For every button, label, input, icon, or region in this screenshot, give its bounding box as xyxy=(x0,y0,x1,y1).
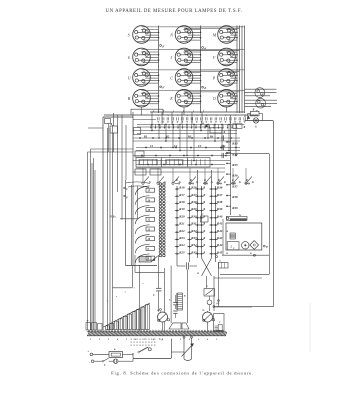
crossover X wires xyxy=(202,258,212,276)
svg-text:G: G xyxy=(158,309,160,312)
svg-text:R19: R19 xyxy=(179,207,185,211)
svg-text:R18: R18 xyxy=(179,200,185,204)
inner region left vertical xyxy=(132,112,134,266)
staircase resistor bank xyxy=(104,303,151,330)
meter M1 circle xyxy=(158,309,170,331)
top row terminal numbers xyxy=(158,115,236,117)
bus wire h2 y=119.5 xyxy=(133,119,156,121)
plug/fuse box xyxy=(109,348,123,357)
left lower bundle verticals xyxy=(88,149,96,330)
svg-text:C: C xyxy=(170,76,173,81)
tube socket C (col 2 row 3) xyxy=(170,69,201,87)
svg-text:R: R xyxy=(203,237,205,240)
svg-text:C: C xyxy=(153,294,155,297)
component C12 box in matrix xyxy=(201,213,209,222)
wire lower with switch and lamp xyxy=(89,358,114,364)
svg-text:R: R xyxy=(203,208,205,211)
tube socket O (col 3 row 4) xyxy=(213,89,238,107)
galvanometer G circle-X xyxy=(253,118,258,129)
inner right boundary vertical xyxy=(268,154,270,275)
wire main line to right xyxy=(245,120,274,122)
resistor R13b box xyxy=(233,124,246,129)
node labels C and g xyxy=(124,187,129,199)
resistor R20 box with loop xyxy=(248,108,263,120)
right contact column xyxy=(226,115,238,215)
small top box xyxy=(131,109,163,115)
wire row 4 long horizontals xyxy=(142,91,245,92)
wire to plug upper xyxy=(88,351,110,356)
shunt box with hatching xyxy=(227,230,236,239)
wire plug to transformer xyxy=(123,354,134,356)
right boundary vertical wire xyxy=(273,121,275,307)
svg-text:R: R xyxy=(203,251,205,254)
fuse G horizontal component xyxy=(226,214,247,221)
wire row 1 long horizontals xyxy=(142,27,245,28)
brush trapezoid right xyxy=(182,323,189,329)
svg-text:r: r xyxy=(116,295,117,298)
terminal strip numbers xyxy=(90,339,218,341)
svg-text:6: 6 xyxy=(128,55,130,60)
node F lower xyxy=(160,86,166,90)
node F upper xyxy=(160,44,166,48)
svg-text:4: 4 xyxy=(187,115,188,117)
bus comb ticks xyxy=(151,125,238,129)
panel outer left vertical xyxy=(102,117,104,330)
svg-text:R34: R34 xyxy=(232,152,238,156)
terminal strip hatched bar xyxy=(87,332,227,336)
svg-text:φ: φ xyxy=(266,245,268,249)
left verticals x117-126 xyxy=(117,115,126,220)
tiny labels along bus lines xyxy=(144,135,226,148)
svg-text:R29: R29 xyxy=(191,207,197,211)
svg-text:8: 8 xyxy=(225,115,226,117)
svg-text:R31: R31 xyxy=(191,222,197,226)
tube socket J (col 2 row 2) xyxy=(170,48,201,66)
bus wire h12 y=164.5 xyxy=(136,164,225,166)
vertical wire from R9 xyxy=(113,113,115,152)
svg-text:R32: R32 xyxy=(191,229,197,233)
svg-text:R39: R39 xyxy=(232,206,238,210)
svg-text:R20: R20 xyxy=(179,214,185,218)
pilot lamp xyxy=(113,359,133,364)
bus wire h10 y=155.5 xyxy=(133,155,230,157)
svg-text:J: J xyxy=(170,55,172,60)
svg-text:C: C xyxy=(202,213,204,216)
right block enclosure box xyxy=(226,223,262,250)
svg-text:A: A xyxy=(243,115,246,118)
tube socket E (col 2 row 4) xyxy=(169,89,201,107)
svg-text:R36: R36 xyxy=(217,186,223,190)
svg-text:R26: R26 xyxy=(191,186,197,190)
hatched resistor between meters xyxy=(178,293,183,310)
bus wire h5 y=130.5 xyxy=(133,130,237,132)
comb wafer band xyxy=(136,158,210,168)
component C small box right of matrix xyxy=(219,260,229,269)
U-shaped wire box below strip xyxy=(133,340,172,359)
svg-text:7: 7 xyxy=(216,115,217,117)
svg-text:R37: R37 xyxy=(232,184,238,188)
tube socket B (col 1 row 4) xyxy=(128,89,159,107)
component box left b xyxy=(135,151,144,157)
svg-text:R: R xyxy=(204,179,206,182)
tube socket 6 (col 1 row 2) xyxy=(128,48,159,66)
svg-text:R: R xyxy=(203,223,205,226)
panel outer top edge xyxy=(103,116,133,118)
svg-text:r: r xyxy=(125,291,126,294)
svg-text:R24: R24 xyxy=(179,243,185,247)
left bundle top connectors xyxy=(88,128,134,152)
svg-text:R42: R42 xyxy=(217,229,223,233)
capacitor C5 small xyxy=(173,295,177,309)
svg-text:R: R xyxy=(203,244,205,247)
capacitor C6 small xyxy=(169,299,178,319)
bus wire h11 y=160.5 xyxy=(133,160,230,162)
right boundary bottom horizontal xyxy=(214,306,274,308)
rotary switch arcs and resistor steps xyxy=(135,186,154,263)
wire verticals between meters xyxy=(171,266,187,324)
svg-text:R: R xyxy=(224,131,226,134)
svg-text:R: R xyxy=(253,108,255,111)
svg-text:S: S xyxy=(128,33,130,38)
wire above switch row xyxy=(133,171,225,173)
svg-text:R: R xyxy=(203,187,205,190)
svg-text:C: C xyxy=(126,188,128,191)
svg-text:P: P xyxy=(212,76,216,81)
rotary switch enclosure inner vertical xyxy=(131,185,133,266)
terminal strip stud circles xyxy=(88,330,223,332)
phones diamond symbol xyxy=(250,241,259,250)
svg-text:R23: R23 xyxy=(179,236,185,240)
box Lp xyxy=(227,242,239,250)
selector switch row xyxy=(142,168,254,184)
meter circle with center dot xyxy=(242,242,249,249)
panel inner verticals bundle xyxy=(108,125,113,330)
rotary switch entry curves xyxy=(126,182,150,188)
bus wire h8 y=147.5 xyxy=(136,147,240,149)
component box left a xyxy=(134,128,141,135)
svg-text:A: A xyxy=(196,272,199,275)
svg-text:R: R xyxy=(203,194,205,197)
svg-text:R27: R27 xyxy=(191,193,197,197)
meter M2 circle xyxy=(203,309,215,331)
capacitor symbols at line ends xyxy=(222,135,224,158)
bus wire h13 y=168.0 xyxy=(136,167,225,169)
svg-text:R28: R28 xyxy=(191,200,197,204)
svg-text:R38: R38 xyxy=(217,200,223,204)
svg-text:Fl.Ex: Fl.Ex xyxy=(110,216,117,219)
junction on right boundary wire xyxy=(213,306,215,308)
svg-text:O: O xyxy=(213,96,216,101)
svg-text:5: 5 xyxy=(196,115,197,117)
svg-text:R43: R43 xyxy=(217,236,223,240)
svg-text:R30: R30 xyxy=(191,214,197,218)
capacitor C4 mid-left xyxy=(153,255,161,312)
scattered junction dots on bus lines xyxy=(139,137,236,165)
svg-text:M: M xyxy=(212,33,217,38)
svg-text:d: d xyxy=(204,46,206,50)
wire row 2 long horizontals xyxy=(142,49,245,50)
tube socket S (col 1 row 1) xyxy=(128,26,159,44)
bus wire h9 y=150.5 xyxy=(136,150,240,152)
svg-text:A: A xyxy=(201,123,204,126)
socket bus box top edge xyxy=(150,111,245,113)
label phi right of block xyxy=(263,245,268,249)
tube socket V (col 3 row 2) xyxy=(213,48,238,66)
svg-text:R45: R45 xyxy=(217,250,223,254)
svg-text:R: R xyxy=(218,179,220,182)
switch blade above enclosure bottom xyxy=(139,256,158,262)
wire below X to component xyxy=(206,276,208,289)
node d upper xyxy=(202,46,207,50)
capacitor C7 left of matrix xyxy=(177,263,197,270)
svg-text:R25: R25 xyxy=(179,250,185,254)
small socket x upper right xyxy=(245,88,277,98)
brush trapezoid left xyxy=(169,323,181,329)
node d lower xyxy=(202,86,207,90)
svg-text:G: G xyxy=(203,309,205,312)
tube socket P (col 3 row 3) xyxy=(212,69,238,87)
svg-text:E: E xyxy=(169,96,173,101)
svg-text:R22: R22 xyxy=(179,229,185,233)
svg-text:R: R xyxy=(203,201,205,204)
narrow hatched box bottom right xyxy=(214,302,225,331)
matrix contacts with R labels xyxy=(175,186,223,255)
switch row right contact labels xyxy=(175,179,250,184)
svg-text:6: 6 xyxy=(206,115,207,117)
socket bottom stub wires xyxy=(142,106,227,115)
svg-text:R35: R35 xyxy=(232,163,238,167)
svg-text:d: d xyxy=(204,86,206,90)
bus wire h4 y=133.5 xyxy=(137,133,237,135)
long wire to right boundary xyxy=(225,153,269,155)
svg-text:1: 1 xyxy=(158,115,159,117)
small lamp circle below matrix xyxy=(207,296,212,311)
matrix lower verticals xyxy=(214,262,219,311)
svg-text:R36: R36 xyxy=(232,174,238,178)
tube socket U (col 1 row 3) xyxy=(128,69,159,87)
bus band right of col3 xyxy=(237,26,245,114)
svg-text:L: L xyxy=(230,246,233,249)
svg-text:v: v xyxy=(160,311,161,313)
bus drops with junction dots xyxy=(151,124,236,161)
svg-text:R33: R33 xyxy=(232,142,238,146)
faint scan crease line xyxy=(309,303,311,352)
bus line between col2 and col3 xyxy=(200,26,202,114)
component boxes above switch row xyxy=(135,169,161,175)
wire lower right horizontals xyxy=(214,274,270,307)
text cluster below strip xyxy=(131,338,164,347)
bus line between col1 and col2 xyxy=(158,26,160,114)
rotary switch contact stud columns xyxy=(159,183,165,257)
svg-text:R17: R17 xyxy=(179,193,185,197)
top contact row of terminal ticks xyxy=(158,117,246,122)
left inner vertical wires to bottom xyxy=(113,186,165,331)
arrow A marker xyxy=(243,115,250,119)
long top line xyxy=(104,114,258,116)
svg-text:R35: R35 xyxy=(191,250,197,254)
wire U-box to rheostat xyxy=(172,351,185,353)
switch below strip xyxy=(138,347,152,353)
wire below block xyxy=(216,252,270,258)
rheostat with arrow xyxy=(182,336,194,360)
svg-text:2: 2 xyxy=(168,115,169,117)
rotary switch enclosure xyxy=(126,180,158,266)
svg-text:R41: R41 xyxy=(217,222,223,226)
svg-text:R21: R21 xyxy=(179,222,185,226)
svg-text:R: R xyxy=(203,230,205,233)
svg-text:R40: R40 xyxy=(217,214,223,218)
svg-text:R: R xyxy=(176,179,178,182)
svg-text:R: R xyxy=(232,179,234,182)
small socket y lower right xyxy=(245,98,278,108)
terminal blocks at left bundle feet xyxy=(86,321,102,331)
svg-text:R: R xyxy=(190,179,192,182)
svg-text:N: N xyxy=(169,33,173,38)
svg-text:R: R xyxy=(111,123,113,126)
staircase labels xyxy=(107,282,144,303)
svg-text:R44: R44 xyxy=(217,243,223,247)
tube socket N (col 2 row 1) xyxy=(169,26,201,44)
svg-text:R: R xyxy=(246,179,248,182)
drop wires from socket box with labels xyxy=(152,110,204,125)
bus wire h6 y=138.0 xyxy=(133,137,240,139)
svg-text:3: 3 xyxy=(177,115,178,117)
svg-text:UN APPAREIL DE MESURE POUR LAM: UN APPAREIL DE MESURE POUR LAMPES DE T.S… xyxy=(106,9,243,14)
svg-text:R37: R37 xyxy=(217,193,223,197)
svg-text:r: r xyxy=(107,300,108,303)
svg-text:R: R xyxy=(244,126,246,129)
svg-text:R34: R34 xyxy=(191,243,197,247)
wire left side of block xyxy=(222,219,224,255)
svg-text:R38: R38 xyxy=(232,195,238,199)
svg-text:R16: R16 xyxy=(179,186,185,190)
resistor R9 box xyxy=(110,123,117,133)
svg-text:Fig. 8. Schéma des connexions: Fig. 8. Schéma des connexions de l’appar… xyxy=(111,371,254,376)
svg-text:R33: R33 xyxy=(191,236,197,240)
svg-text:G: G xyxy=(239,214,241,217)
svg-text:r: r xyxy=(143,282,144,285)
bus wire h3 y=127.0 xyxy=(137,126,210,128)
resistor R13 box xyxy=(210,128,226,134)
svg-text:(A): (A) xyxy=(216,302,220,305)
component block below matrix xyxy=(204,285,215,296)
tube socket M (col 3 row 1) xyxy=(212,26,238,44)
svg-text:R39: R39 xyxy=(217,207,223,211)
bus wire h7 y=141.0 xyxy=(133,140,240,142)
bus wire h1 y=124.5 xyxy=(137,124,245,126)
svg-text:r: r xyxy=(134,286,135,289)
svg-text:9: 9 xyxy=(235,115,236,117)
matrix vertical bus wires xyxy=(177,170,216,266)
wire row 3 long horizontals xyxy=(142,70,245,71)
small component near top-left xyxy=(105,119,111,153)
label FL.EX with wire xyxy=(110,216,138,219)
arrow A marker near R13 xyxy=(201,123,207,127)
